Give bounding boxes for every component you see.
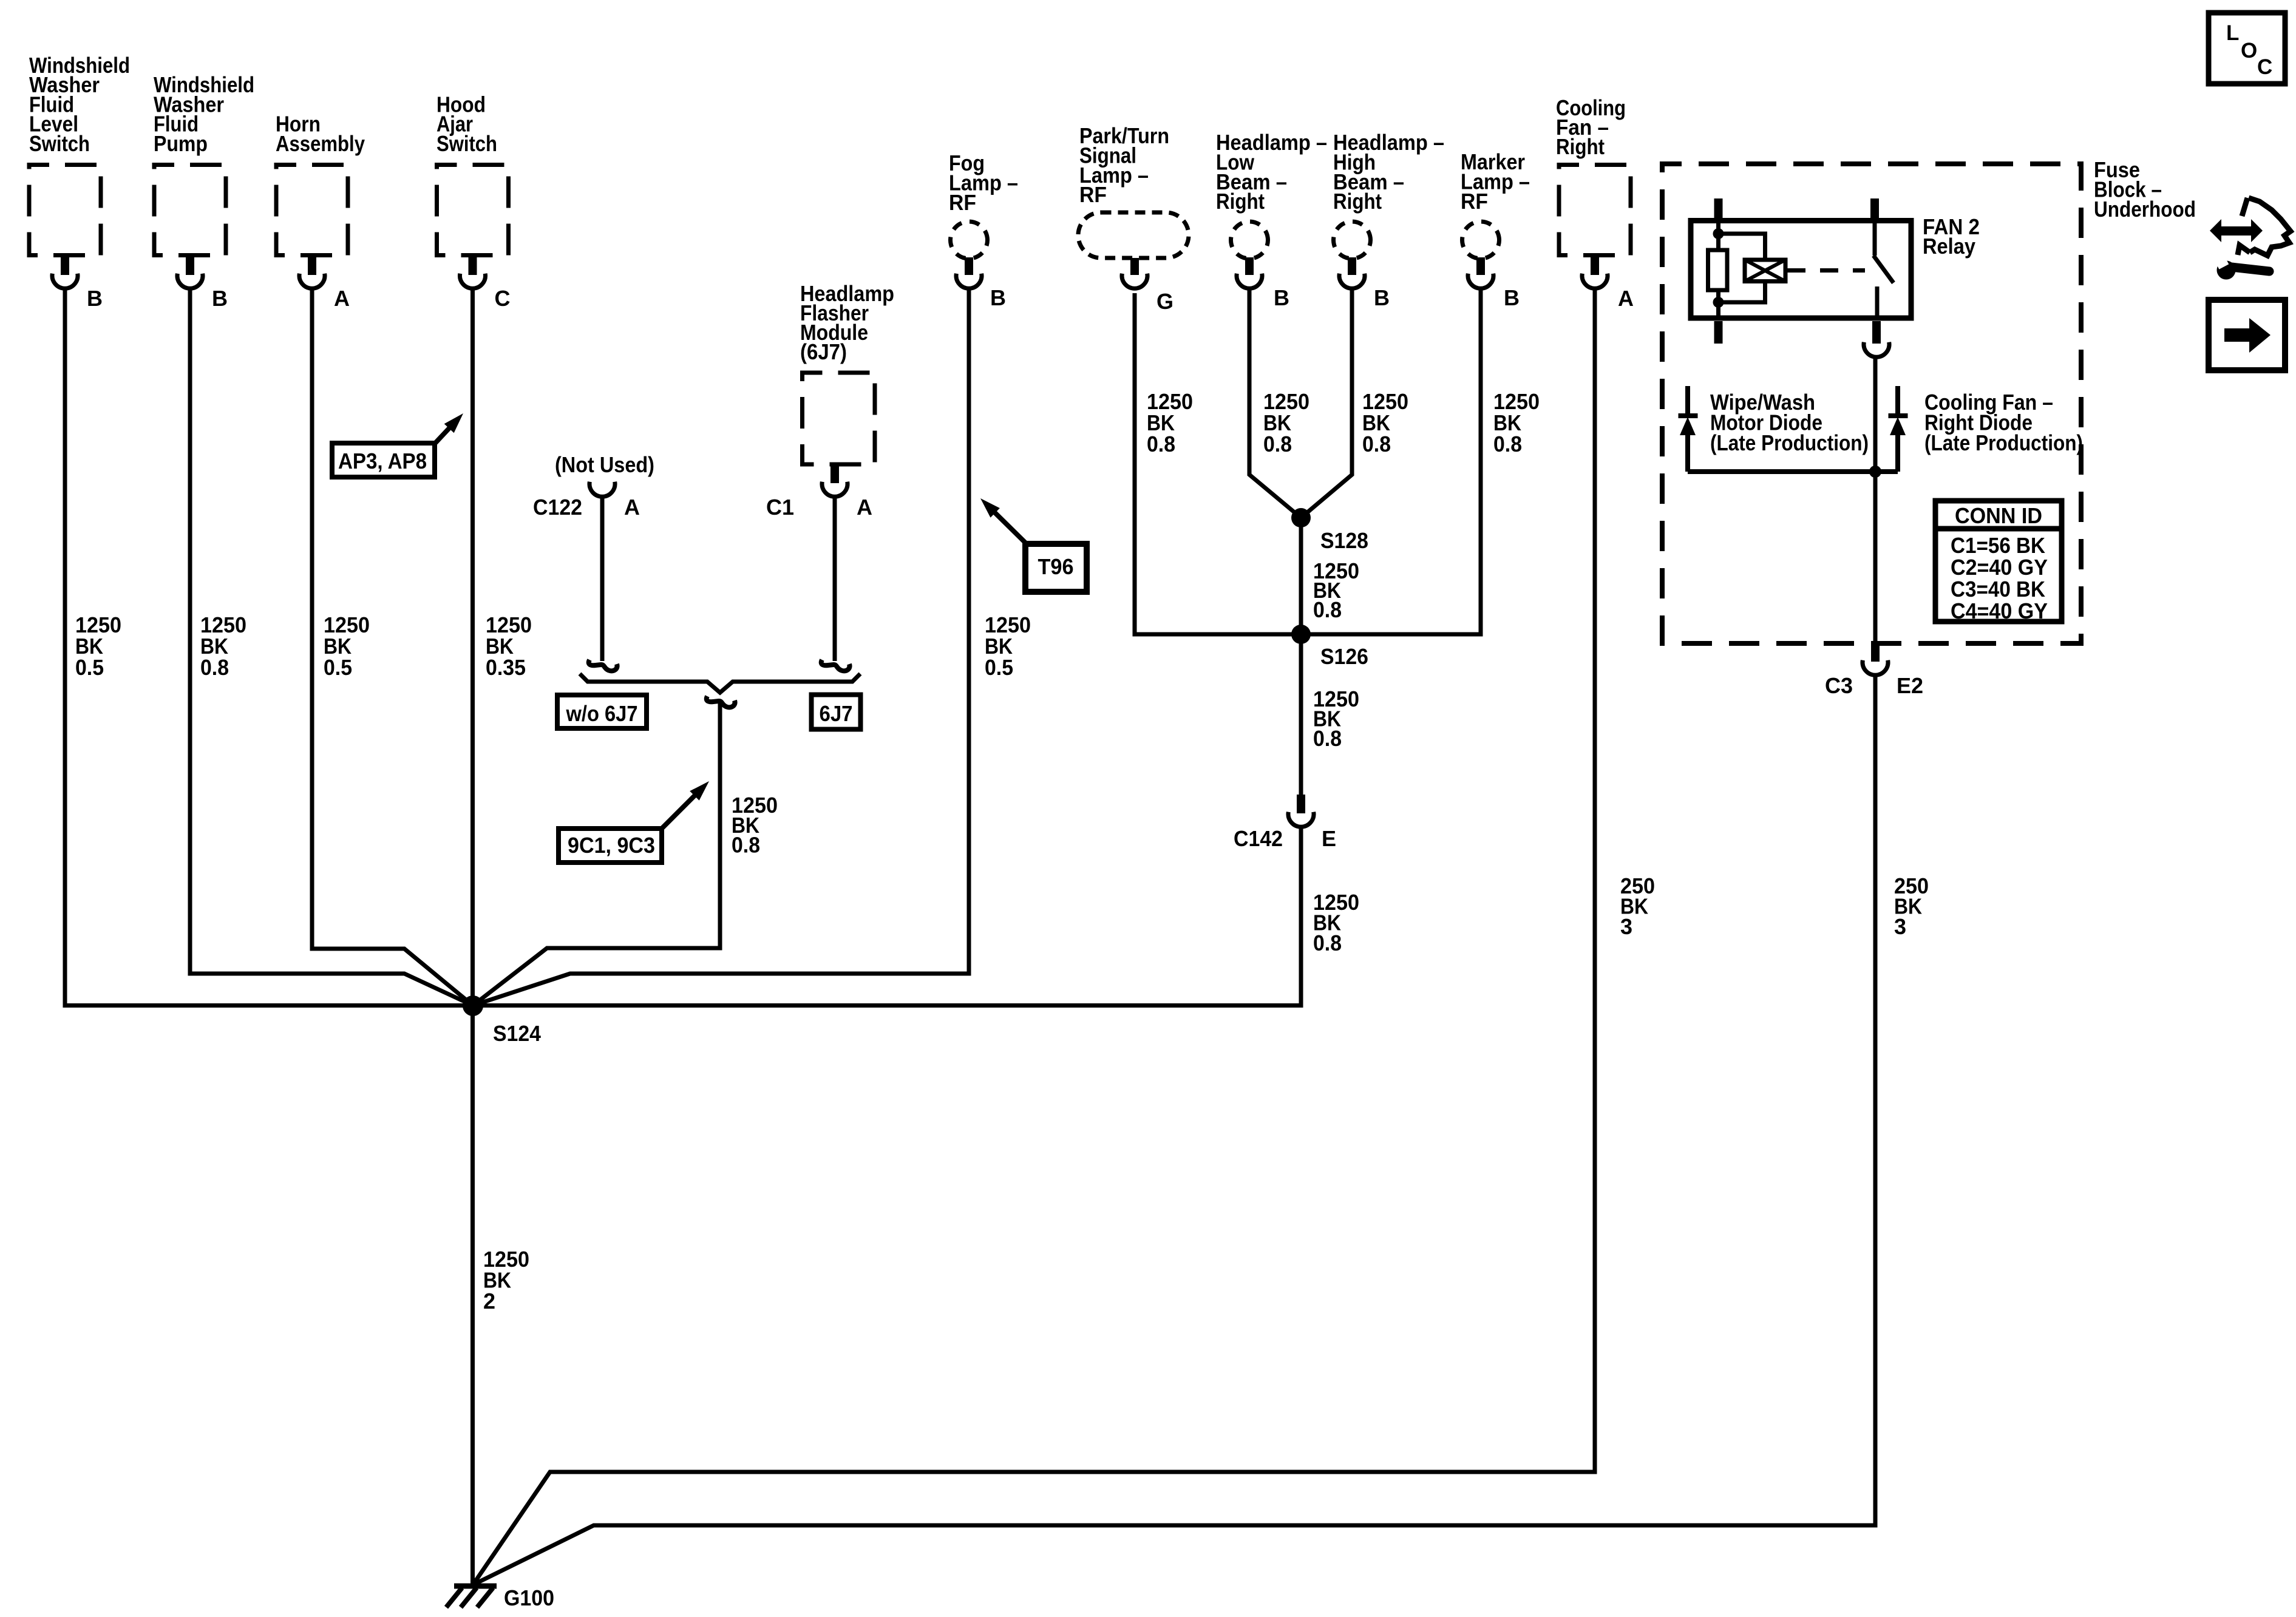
connector pin B of washer fluid pump	[186, 256, 194, 276]
connector pin B of marker lamp	[1476, 257, 1485, 275]
svg-text:0.8: 0.8	[1263, 432, 1292, 456]
connector C142 pin E	[1297, 795, 1305, 813]
svg-text:Pump: Pump	[154, 131, 208, 156]
svg-text:0.8: 0.8	[1362, 432, 1391, 456]
svg-text:C3: C3	[1825, 673, 1853, 698]
wire C1 to option bus	[833, 498, 837, 661]
connector pin A of cooling fan	[1591, 256, 1599, 276]
connector C3 / E2	[1871, 642, 1880, 662]
svg-text:Right: Right	[1216, 189, 1265, 214]
svg-text:A: A	[857, 495, 872, 520]
svg-text:0.5: 0.5	[75, 655, 104, 680]
svg-text:B: B	[1274, 285, 1289, 310]
svg-text:AP3, AP8: AP3, AP8	[338, 449, 427, 473]
wire fuse block C3/E2 to G100	[474, 675, 1875, 1584]
callout T96	[1025, 544, 1087, 592]
CONN ID table	[1935, 501, 2062, 622]
option brace bus	[580, 674, 860, 693]
svg-text:B: B	[1504, 285, 1520, 310]
svg-text:C3=40 BK: C3=40 BK	[1951, 577, 2045, 602]
svg-text:0.8: 0.8	[1313, 931, 1342, 955]
connector C1 pin A	[830, 464, 839, 483]
connector pin G of park/turn lamp	[1130, 258, 1139, 275]
svg-text:A: A	[334, 286, 350, 311]
relay output cup	[1864, 342, 1889, 358]
svg-text:0.8: 0.8	[1493, 432, 1522, 456]
wire fog lamp to S124	[473, 290, 969, 1006]
wire marker lamp to S126	[1301, 290, 1481, 634]
svg-text:Underhood: Underhood	[2094, 197, 2196, 222]
icon: arrow in box	[2209, 300, 2285, 370]
svg-text:0.8: 0.8	[1313, 597, 1342, 622]
svg-text:CONN ID: CONN ID	[1955, 503, 2042, 528]
relay pin stubs	[1714, 198, 1723, 218]
svg-text:B: B	[212, 286, 228, 311]
svg-text:E: E	[1322, 826, 1336, 851]
hook C122 wire end	[589, 660, 617, 671]
svg-text:3: 3	[1620, 914, 1632, 939]
svg-text:B: B	[990, 285, 1006, 310]
callout AP3, AP8	[332, 443, 435, 477]
svg-text:(Not Used): (Not Used)	[555, 452, 654, 477]
diode junction dot	[1869, 466, 1881, 478]
svg-text:3: 3	[1894, 914, 1906, 939]
svg-text:L: L	[2226, 21, 2239, 45]
wipe/wash motor diode	[1685, 386, 1690, 413]
svg-text:Switch: Switch	[436, 131, 497, 156]
wire S126 to C142	[1299, 634, 1303, 796]
FAN 2 relay box	[1691, 221, 1911, 319]
wire washer level switch to S124 and main bus to C142 wire	[65, 290, 1301, 1006]
wire high beam to S128	[1301, 290, 1352, 518]
svg-text:O: O	[2241, 39, 2257, 63]
relay actuator dashed link	[1787, 268, 1865, 273]
icon: vehicle front with double arrow	[2238, 198, 2291, 256]
wire relay to C3/E2	[1873, 357, 1878, 642]
svg-text:w/o 6J7: w/o 6J7	[566, 701, 638, 726]
svg-text:B: B	[87, 286, 103, 311]
svg-text:S128: S128	[1320, 528, 1368, 553]
svg-text:B: B	[1374, 285, 1390, 310]
connector pin A of horn assembly	[308, 256, 316, 276]
svg-text:0.35: 0.35	[486, 655, 526, 680]
svg-text:A: A	[1618, 286, 1634, 311]
svg-text:RF: RF	[949, 190, 976, 215]
hook below brace	[707, 696, 735, 707]
wire washer pump to S124	[190, 290, 473, 1006]
svg-text:RF: RF	[1461, 189, 1488, 214]
connector pin B of low beam	[1245, 257, 1254, 275]
svg-text:0.5: 0.5	[985, 655, 1013, 680]
splice S126	[1291, 625, 1311, 644]
svg-text:C2=40 GY: C2=40 GY	[1951, 555, 2048, 580]
svg-text:9C1, 9C3: 9C1, 9C3	[568, 833, 655, 858]
svg-text:C142: C142	[1234, 826, 1283, 851]
wire S128 to S126	[1299, 518, 1303, 634]
svg-text:G: G	[1156, 289, 1173, 314]
relay coil resistor	[1708, 250, 1728, 290]
relay switch	[1873, 221, 1877, 256]
svg-text:(Late Production): (Late Production)	[1924, 430, 2083, 455]
svg-text:E2: E2	[1897, 673, 1923, 698]
svg-text:Relay: Relay	[1923, 234, 1975, 259]
label box 6J7	[812, 695, 861, 730]
relay junction dots	[1713, 228, 1724, 239]
svg-text:T96: T96	[1038, 554, 1074, 579]
svg-text:C: C	[2257, 55, 2272, 79]
hook C1 wire end	[821, 660, 850, 671]
callout 9C1, 9C3	[559, 829, 662, 863]
LOC box	[2209, 13, 2285, 84]
svg-text:Assembly: Assembly	[276, 131, 365, 156]
svg-text:2: 2	[483, 1289, 495, 1314]
wire C142 to main bus	[1299, 827, 1303, 1008]
svg-text:C1=56 BK: C1=56 BK	[1951, 533, 2045, 558]
relay coil circuit	[1716, 221, 1720, 251]
fuse block underhood dashed box	[1662, 164, 2081, 643]
connector pin B of fog lamp	[965, 257, 973, 275]
wire cooling fan to G100	[474, 290, 1595, 1583]
svg-text:(6J7): (6J7)	[800, 339, 847, 364]
svg-text:0.8: 0.8	[732, 833, 760, 858]
svg-text:0.5: 0.5	[324, 655, 352, 680]
wire horn to S124	[312, 290, 473, 1006]
svg-text:(Late Production): (Late Production)	[1710, 430, 1869, 455]
ground G100	[454, 1584, 497, 1589]
svg-text:6J7: 6J7	[820, 701, 853, 726]
svg-text:Right: Right	[1333, 189, 1382, 214]
svg-text:G100: G100	[504, 1585, 554, 1610]
diode ground bar	[1688, 469, 1898, 474]
relay coil X box	[1745, 260, 1785, 282]
wire low beam to S128	[1249, 290, 1301, 518]
svg-text:0.8: 0.8	[1147, 432, 1175, 456]
connector pin B of high beam	[1348, 257, 1356, 275]
wire option splice to S124	[473, 703, 720, 1006]
svg-text:Right: Right	[1556, 134, 1605, 159]
svg-text:S124: S124	[493, 1021, 541, 1046]
wire C122 to option bus	[600, 498, 605, 661]
svg-text:A: A	[624, 495, 640, 520]
svg-text:0.8: 0.8	[200, 655, 229, 680]
svg-text:C1: C1	[766, 495, 794, 520]
svg-text:RF: RF	[1079, 182, 1107, 207]
svg-text:0.8: 0.8	[1313, 726, 1342, 751]
svg-text:Switch: Switch	[29, 131, 90, 156]
splice S124	[463, 995, 483, 1016]
svg-text:C122: C122	[533, 495, 582, 520]
svg-text:S126: S126	[1320, 644, 1368, 669]
connector pin B of washer fluid level switch	[61, 256, 69, 276]
connector pin C of hood ajar switch	[469, 256, 477, 276]
svg-text:C4=40 GY: C4=40 GY	[1951, 598, 2048, 623]
relay coil branch	[1719, 234, 1765, 260]
svg-text:C: C	[495, 286, 511, 311]
cooling fan right diode	[1895, 386, 1900, 413]
label box w/o 6J7	[557, 695, 647, 728]
icon: wrench	[2217, 261, 2236, 280]
wire hood ajar switch through S124 to G100	[470, 290, 475, 1585]
splice S128	[1291, 508, 1311, 527]
wire park/turn to S126 horizontal	[1135, 293, 1301, 634]
